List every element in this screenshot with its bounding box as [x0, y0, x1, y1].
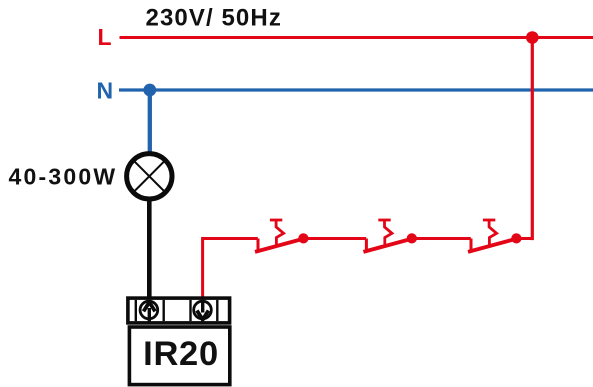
terminal strip divider 4 [216, 300, 218, 321]
push-button switch S1 [255, 220, 303, 252]
terminal strip divider 1 [135, 300, 137, 321]
wire S3 to drop [516, 237, 532, 240]
lamp E1 [127, 154, 172, 199]
junction dot S2 contact [407, 233, 417, 243]
svg-text:N: N [97, 78, 114, 104]
terminal 2 (output, down arrow) [194, 300, 212, 320]
terminal strip divider 3 [189, 300, 191, 321]
IR20 module body [129, 327, 229, 385]
wire switch row to IR20 terminal 2 [203, 239, 258, 300]
IR20 module box terminal strip [128, 298, 230, 323]
svg-text:IR20: IR20 [143, 335, 219, 373]
junction dot S1 contact [298, 233, 308, 243]
junction dot on N [143, 84, 156, 97]
wire L line [120, 36, 593, 39]
wire S2 to S3 [412, 237, 471, 240]
terminal 1 (input, up arrow) [140, 301, 158, 322]
wire S1 to S2 [303, 237, 366, 240]
wire N line [119, 88, 593, 91]
svg-text:230V/ 50Hz: 230V/ 50Hz [146, 5, 282, 32]
push-button switch S3 [468, 220, 516, 252]
junction dot S3 contact [511, 233, 521, 243]
svg-text:40-300W: 40-300W [9, 164, 118, 190]
terminal strip divider 2 [162, 300, 164, 321]
push-button switch S2 [363, 220, 411, 252]
wire red drop from L line [531, 38, 534, 241]
svg-text:L: L [98, 24, 112, 50]
wire N to lamp [148, 90, 152, 154]
wire lamp to IR20 terminal 1 [147, 199, 152, 300]
junction dot on L [526, 31, 539, 44]
